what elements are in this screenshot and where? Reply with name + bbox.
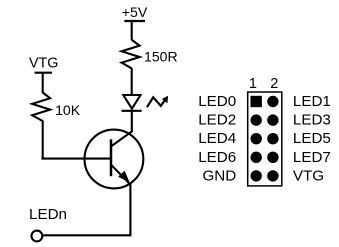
svg-text:VTG: VTG — [29, 56, 58, 72]
pin 6 — [267, 133, 278, 144]
wire LEDn terminal to emitter riser — [43, 234, 130, 236]
pin 3 — [251, 114, 262, 125]
pin 1 (square pad) — [251, 96, 262, 107]
wire emitter of Q1 down — [129, 184, 131, 237]
wire +5V terminal to resistor R1 — [131, 21, 133, 40]
svg-text:GND: GND — [202, 167, 236, 184]
svg-text:LED0: LED0 — [198, 93, 236, 110]
resistor R2 10K — [32, 93, 50, 122]
svg-text:LED3: LED3 — [293, 112, 331, 129]
pin 10 — [267, 170, 278, 181]
svg-text:+5V: +5V — [122, 4, 148, 20]
wire resistor R1 to LED D1 — [131, 68, 133, 95]
pin 5 — [251, 133, 262, 144]
pin 7 — [251, 152, 262, 163]
svg-text:10K: 10K — [55, 102, 81, 118]
pin 8 — [267, 152, 278, 163]
svg-text:150R: 150R — [144, 49, 178, 65]
svg-text:1: 1 — [249, 76, 257, 92]
LED light emission arrow — [147, 96, 168, 107]
wire resistor R2 down — [42, 121, 44, 159]
header connector J1 outline — [248, 92, 282, 186]
terminal VTG — [35, 72, 53, 74]
svg-text:LED5: LED5 — [293, 130, 331, 147]
wire VTG terminal to resistor R2 — [42, 73, 44, 93]
wire LED D1 to collector of Q1 — [131, 111, 133, 132]
svg-text:2: 2 — [270, 76, 278, 92]
svg-text:LED6: LED6 — [198, 149, 236, 166]
svg-text:LED4: LED4 — [198, 130, 236, 147]
transistor Q1 (NPN) — [85, 130, 144, 189]
resistor R1 150R — [122, 40, 140, 69]
pin 2 — [267, 96, 278, 107]
terminal LEDn (open circle) — [32, 231, 43, 242]
svg-text:VTG: VTG — [293, 167, 324, 184]
wire to base of Q1 — [41, 158, 111, 160]
svg-text:LED2: LED2 — [198, 112, 236, 129]
svg-text:LED7: LED7 — [293, 149, 331, 166]
LED D1 — [122, 95, 142, 111]
pin 4 — [267, 114, 278, 125]
svg-text:LED1: LED1 — [293, 93, 331, 110]
terminal +5V — [124, 20, 145, 22]
pin 9 — [251, 170, 262, 181]
svg-text:LEDn: LEDn — [29, 206, 67, 223]
